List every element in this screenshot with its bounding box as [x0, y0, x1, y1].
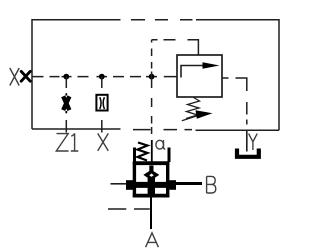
- node Y label: [249, 134, 258, 150]
- node junction dot 2: [99, 74, 105, 80]
- wire: X branch dashed vertical: [101, 77, 103, 133]
- wire: Y port tick below boundary: [246, 130, 248, 151]
- wire: manifold bottom-right solid: [196, 129, 280, 131]
- node a pilot label: [156, 140, 165, 149]
- cartridge valve CV upper chamber walls: [135, 148, 170, 163]
- wire: manifold bottom-left solid: [32, 128, 121, 130]
- wire: manifold top-right solid and right edge: [196, 20, 279, 131]
- poppet stem: [148, 178, 155, 197]
- wire: B port line: [176, 182, 202, 185]
- arrow inside relief valve: [203, 62, 220, 69]
- node Z1 label: [56, 133, 78, 151]
- orifice-in-box symbol on X branch: [96, 95, 107, 111]
- wire: pilot stem into valve: [151, 140, 153, 162]
- tank symbol at Y: [237, 149, 259, 157]
- cartridge valve main body: [133, 162, 170, 198]
- adjustment arrow across relief spring: [182, 115, 200, 121]
- port boss right: [169, 180, 176, 190]
- node X port label: [10, 68, 19, 86]
- flow path inside relief valve: [181, 66, 204, 78]
- wire: dashed pilot b line: [108, 208, 150, 210]
- node B label: [207, 176, 216, 193]
- wire: manifold boundary left and top-left solid: [32, 20, 121, 129]
- node X bottom label: [98, 133, 109, 151]
- wire: pilot branch down from junction 3 to valve pilot a (dashed): [151, 82, 153, 134]
- wire: manifold top dashed section: [131, 19, 193, 21]
- node junction dot 3: [149, 74, 155, 80]
- plug cross at port X: [21, 71, 30, 81]
- port boss left: [126, 180, 133, 190]
- node A label: [146, 233, 159, 247]
- wire: Z1 branch dashed vertical: [65, 77, 67, 133]
- spring of cartridge valve: [138, 143, 148, 161]
- spring of relief valve: [186, 98, 200, 119]
- wire: left stub line to valve: [111, 183, 127, 185]
- wire: relief valve right outlet stub: [222, 77, 229, 79]
- node junction dot 1: [63, 74, 69, 80]
- seat bar of cartridge valve: [127, 182, 176, 188]
- wire: main pilot line (dashed) from X port to relief valve: [32, 76, 177, 78]
- wire: A port line: [150, 197, 152, 229]
- wire: drain dashed line to Y: [236, 78, 247, 125]
- wire: pilot branch up from junction 3 to relief valve top (dashed with corner): [152, 40, 199, 82]
- op relief valve RV box: [177, 55, 222, 97]
- wire: manifold bottom dashed section: [133, 129, 192, 131]
- orifice (plug) symbol on Z1 branch: [63, 96, 69, 110]
- poppet of cartridge valve: [149, 166, 153, 173]
